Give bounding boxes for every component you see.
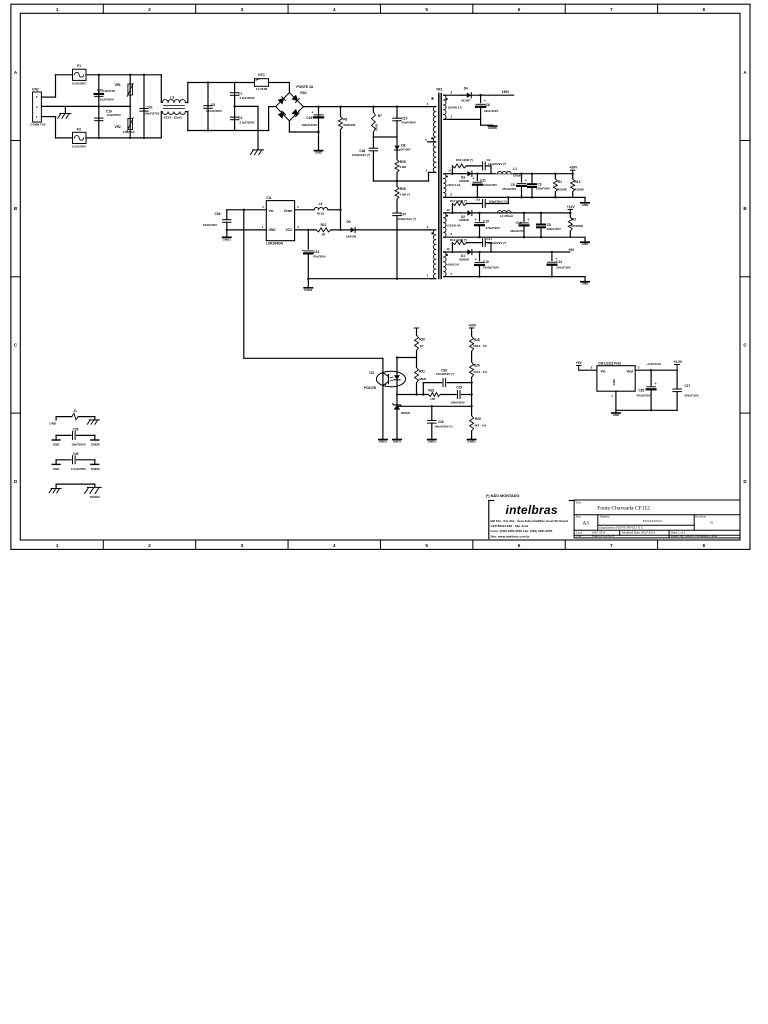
svg-text:GI820D: GI820D <box>459 179 469 183</box>
svg-text:2.2nF/250V: 2.2nF/250V <box>71 467 86 471</box>
svg-text:C11: C11 <box>480 178 486 182</box>
svg-text:R16 120R (*): R16 120R (*) <box>456 158 473 162</box>
svg-text:4: 4 <box>333 543 336 548</box>
svg-text:220uF/16V: 220uF/16V <box>556 266 570 270</box>
svg-text:L3: L3 <box>170 95 174 99</box>
svg-text:56K2 - 1%: 56K2 - 1% <box>473 344 487 348</box>
svg-text:J1: J1 <box>73 409 77 413</box>
svg-text:BR 101 - Km 212 - Área Industr: BR 101 - Km 212 - Área Industrial/São Jo… <box>491 518 569 523</box>
svg-text:470uF/25V: 470uF/25V <box>486 226 500 230</box>
svg-text:4.3M: 4.3M <box>400 165 407 169</box>
svg-text:GF1007: GF1007 <box>400 147 411 151</box>
svg-text:Vout: Vout <box>626 369 634 373</box>
svg-text:D9: D9 <box>347 220 351 224</box>
svg-text:Fone: (048) 3281.9500 Fax: (04: Fone: (048) 3281.9500 Fax: (048) 3281.95… <box>491 529 553 533</box>
svg-text:EE25 - 25mH: EE25 - 25mH <box>164 116 182 120</box>
svg-text:10nF/250V: 10nF/250V <box>107 113 121 117</box>
svg-text:GI1007: GI1007 <box>461 98 471 102</box>
svg-text:R9: R9 <box>343 118 347 122</box>
svg-text:Size: Size <box>576 514 582 518</box>
svg-text:680R: 680R <box>419 377 427 381</box>
svg-text:D4: D4 <box>464 86 468 90</box>
svg-text:+3.3V: +3.3V <box>673 360 683 364</box>
svg-text:1N4148: 1N4148 <box>346 235 357 239</box>
svg-text:C6: C6 <box>486 103 490 107</box>
svg-text:+30V: +30V <box>569 166 578 170</box>
svg-text:470uF/35V: 470uF/35V <box>483 183 497 187</box>
svg-text:4.3M (*): 4.3M (*) <box>400 192 410 196</box>
svg-text:L2 150uH: L2 150uH <box>500 214 513 218</box>
svg-text:C12: C12 <box>556 260 562 264</box>
svg-text:R35: R35 <box>400 160 406 164</box>
svg-text:F012L43TGN: F012L43TGN <box>643 519 662 523</box>
svg-text:GND: GND <box>582 282 590 286</box>
svg-text:1: 1 <box>56 543 59 548</box>
svg-text:100uF/400V: 100uF/400V <box>301 123 317 127</box>
svg-text:470uF/35V: 470uF/35V <box>502 187 516 191</box>
svg-text:10: 10 <box>446 208 450 212</box>
svg-text:PONTE 2A: PONTE 2A <box>296 85 314 89</box>
svg-text:100nF/305V: 100nF/305V <box>206 109 222 113</box>
svg-text:7: 7 <box>610 7 613 12</box>
svg-text:100nF/50V: 100nF/50V <box>203 223 217 227</box>
svg-text:GND: GND <box>582 242 590 246</box>
svg-text:+9V: +9V <box>568 248 575 252</box>
svg-text:150V/0.1A: 150V/0.1A <box>448 106 463 110</box>
svg-text:R19 120R (*): R19 120R (*) <box>450 238 467 242</box>
svg-text:C7: C7 <box>477 198 481 202</box>
svg-text:Title: Title <box>576 501 582 505</box>
svg-text:11: 11 <box>448 169 452 173</box>
svg-text:C45: C45 <box>73 452 79 456</box>
svg-text:1: 1 <box>56 7 59 12</box>
svg-text:2.5A/250V: 2.5A/250V <box>72 145 86 149</box>
svg-text:VR1: VR1 <box>115 83 121 87</box>
svg-text:C17: C17 <box>684 384 690 388</box>
svg-text:Vin: Vin <box>601 369 606 373</box>
svg-text:7: 7 <box>610 543 613 548</box>
svg-text:150uH: 150uH <box>513 174 522 178</box>
svg-text:+30V: +30V <box>468 324 477 328</box>
svg-text:Number: Number <box>600 514 610 518</box>
svg-text:+: + <box>525 178 527 182</box>
svg-text:+: + <box>312 111 314 115</box>
svg-text:14N471K: 14N471K <box>103 89 116 93</box>
svg-text:NTC: NTC <box>258 73 265 77</box>
svg-text:150V: 150V <box>502 90 510 94</box>
svg-text:+12V/0.4A: +12V/0.4A <box>446 224 461 228</box>
svg-text:33uF/100V: 33uF/100V <box>484 109 498 113</box>
svg-text:3K3/2W: 3K3/2W <box>573 188 584 192</box>
svg-text:1000uF/16V: 1000uF/16V <box>483 266 499 270</box>
svg-text:14N471K: 14N471K <box>123 130 136 134</box>
svg-text:GND: GND <box>53 467 61 471</box>
svg-text:File:: File: <box>576 534 582 538</box>
svg-text:2: 2 <box>148 7 151 12</box>
svg-text:VR2: VR2 <box>115 125 121 129</box>
svg-text:10nF/250V: 10nF/250V <box>71 443 85 447</box>
svg-text:6: 6 <box>518 543 521 548</box>
svg-text:C25: C25 <box>638 388 644 392</box>
svg-text:GNDR: GNDR <box>91 467 101 471</box>
svg-text:CX1: CX1 <box>147 105 153 109</box>
svg-text:+12V: +12V <box>567 205 576 209</box>
svg-text:12: 12 <box>446 247 450 251</box>
svg-text:4: 4 <box>333 7 336 12</box>
svg-text:+9V/0.5A: +9V/0.5A <box>446 263 459 267</box>
svg-text:R7: R7 <box>378 114 382 118</box>
svg-text:+: + <box>655 382 657 386</box>
svg-text:CN2: CN2 <box>32 87 39 91</box>
svg-text:R29: R29 <box>475 417 481 421</box>
svg-text:6: 6 <box>518 7 521 12</box>
svg-text:2: 2 <box>148 543 151 548</box>
svg-text:C35: C35 <box>73 427 79 431</box>
svg-text:R13: R13 <box>575 180 581 184</box>
svg-text:PC817B: PC817B <box>364 386 377 390</box>
svg-text:+: + <box>527 218 529 222</box>
svg-text:(*) NÃO MONTADO: (*) NÃO MONTADO <box>486 493 520 498</box>
svg-text:C10: C10 <box>483 260 489 264</box>
svg-text:100pF/1kV (*): 100pF/1kV (*) <box>352 153 370 157</box>
svg-text:15K: 15K <box>430 397 436 401</box>
svg-text:Fonte Chaveada CF112: Fonte Chaveada CF112 <box>597 505 650 511</box>
svg-text:GI820D: GI820D <box>459 257 469 261</box>
svg-text:GND: GND <box>49 421 57 425</box>
svg-text:RD1: RD1 <box>300 91 307 95</box>
svg-text:1N5231: 1N5231 <box>401 411 412 415</box>
svg-text:GND1: GND1 <box>467 440 476 444</box>
svg-text:F2: F2 <box>77 127 81 131</box>
svg-text:Modified Date: 29/07/2014: Modified Date: 29/07/2014 <box>622 530 655 534</box>
svg-text:GND: GND <box>269 228 277 232</box>
svg-text:C36: C36 <box>215 212 221 216</box>
svg-text:R26: R26 <box>474 363 480 367</box>
svg-text:C13: C13 <box>516 221 522 225</box>
svg-text:CEP 88104-800 - São José: CEP 88104-800 - São José <box>491 524 529 528</box>
svg-text:LNK304GN: LNK304GN <box>266 242 283 246</box>
svg-text:+: + <box>475 257 477 261</box>
svg-text:+3.3V/0.2A: +3.3V/0.2A <box>646 362 662 366</box>
svg-text:2.2uF/250V: 2.2uF/250V <box>240 96 255 100</box>
svg-text:220uF/16V: 220uF/16V <box>684 393 698 397</box>
svg-text:R1: R1 <box>558 180 562 184</box>
svg-text:8: 8 <box>703 7 706 12</box>
svg-text:C29: C29 <box>456 385 462 389</box>
svg-text:A3: A3 <box>583 521 590 527</box>
svg-text:100pF/1kV (*): 100pF/1kV (*) <box>398 217 416 221</box>
svg-text:R31: R31 <box>419 369 425 373</box>
svg-text:R2: R2 <box>572 217 576 221</box>
svg-text:C7: C7 <box>238 92 242 96</box>
svg-text:CONN TX3: CONN TX3 <box>30 123 46 127</box>
svg-text:GNDR: GNDR <box>488 126 498 130</box>
svg-text:Revision: Revision <box>695 514 706 518</box>
svg-text:470uF/25V: 470uF/25V <box>636 394 650 398</box>
svg-text:GND1: GND1 <box>379 440 388 444</box>
svg-text:100nF/275V: 100nF/275V <box>144 111 160 115</box>
svg-text:+: + <box>302 249 304 253</box>
svg-text:220uF/25V: 220uF/25V <box>510 229 524 233</box>
svg-text:TR1: TR1 <box>436 88 443 92</box>
svg-text:GND1: GND1 <box>393 440 402 444</box>
svg-text:C15: C15 <box>483 219 489 223</box>
svg-text:8: 8 <box>703 543 706 548</box>
svg-text:3: 3 <box>241 7 244 12</box>
svg-text:Fonte CF112.SCH: Fonte CF112.SCH <box>592 534 615 538</box>
svg-text:GND: GND <box>582 203 590 207</box>
svg-text:220nF/50V: 220nF/50V <box>547 227 561 231</box>
svg-text:+: + <box>475 218 477 222</box>
svg-text:100nF/50V (*): 100nF/50V (*) <box>436 372 454 376</box>
svg-text:R22: R22 <box>428 388 434 392</box>
svg-text:10nF/400V: 10nF/400V <box>402 120 416 124</box>
svg-text:R36: R36 <box>400 187 406 191</box>
svg-text:R28: R28 <box>474 338 480 342</box>
svg-text:C18: C18 <box>438 420 444 424</box>
svg-text:5: 5 <box>425 543 428 548</box>
svg-text:27K4 - 1%: 27K4 - 1% <box>473 370 487 374</box>
svg-text:Drawn By: Gilberto Bachmann Co: Drawn By: Gilberto Bachmann Corrêa <box>671 534 718 538</box>
svg-text:01: 01 <box>710 520 714 524</box>
svg-text:Organization: FONTE BIVOLT II: Organization: FONTE BIVOLT II G <box>599 526 644 530</box>
svg-text:2.5A/250V: 2.5A/250V <box>72 82 86 86</box>
svg-text:4K7 - 1%: 4K7 - 1% <box>474 423 486 427</box>
svg-text:RL02: RL02 <box>317 212 324 216</box>
svg-text:GND1: GND1 <box>223 237 232 241</box>
svg-text:C8: C8 <box>211 103 215 107</box>
svg-text:intelbras: intelbras <box>506 503 558 517</box>
svg-text:470R: 470R <box>375 123 379 131</box>
svg-text:F1: F1 <box>77 64 81 68</box>
svg-text:GND: GND <box>315 151 323 155</box>
svg-text:R20: R20 <box>419 337 425 341</box>
svg-text:GNDR: GNDR <box>91 443 101 447</box>
svg-text:220nF/50V: 220nF/50V <box>536 187 550 191</box>
svg-text:L1: L1 <box>513 167 517 171</box>
svg-text:100nF/50V (*): 100nF/50V (*) <box>434 425 452 429</box>
svg-text:10 OHM: 10 OHM <box>256 87 268 91</box>
svg-text:R12: R12 <box>321 223 327 227</box>
svg-text:3: 3 <box>241 543 244 548</box>
svg-text:560R/2W: 560R/2W <box>571 224 583 228</box>
svg-text:47uF/50V: 47uF/50V <box>313 254 326 258</box>
svg-text:VCC: VCC <box>286 228 293 232</box>
svg-text:CI2: CI2 <box>369 371 374 375</box>
svg-text:Site: www.intelbras.com.br: Site: www.intelbras.com.br <box>491 534 531 538</box>
svg-text:Vin: Vin <box>269 209 274 213</box>
svg-text:TERRA: TERRA <box>90 495 101 499</box>
svg-text:Drain: Drain <box>284 209 292 213</box>
svg-text:+30V/1.2A: +30V/1.2A <box>446 183 461 187</box>
svg-text:GND: GND <box>53 443 61 447</box>
svg-text:+: + <box>473 177 475 181</box>
svg-text:5: 5 <box>425 7 428 12</box>
svg-text:CI6 LD1117V33: CI6 LD1117V33 <box>598 361 621 365</box>
svg-text:CI1: CI1 <box>266 196 271 200</box>
svg-text:C34: C34 <box>313 250 319 254</box>
svg-text:GI820D: GI820D <box>459 218 469 222</box>
svg-text:100nF/50V: 100nF/50V <box>450 400 464 404</box>
svg-text:R17 120R (*): R17 120R (*) <box>450 199 467 203</box>
svg-text:C16: C16 <box>306 116 312 120</box>
svg-text:GND1: GND1 <box>428 440 437 444</box>
svg-text:+9V: +9V <box>576 361 583 365</box>
svg-text:GND: GND <box>612 378 616 386</box>
svg-text:3K3/2W: 3K3/2W <box>556 188 567 192</box>
svg-text:GND1: GND1 <box>304 288 313 292</box>
svg-text:10uF/250V: 10uF/250V <box>100 98 114 102</box>
svg-text:2.2uF/250V: 2.2uF/250V <box>240 120 255 124</box>
svg-text:L6: L6 <box>319 202 323 206</box>
svg-text:220K/2W: 220K/2W <box>343 123 355 127</box>
